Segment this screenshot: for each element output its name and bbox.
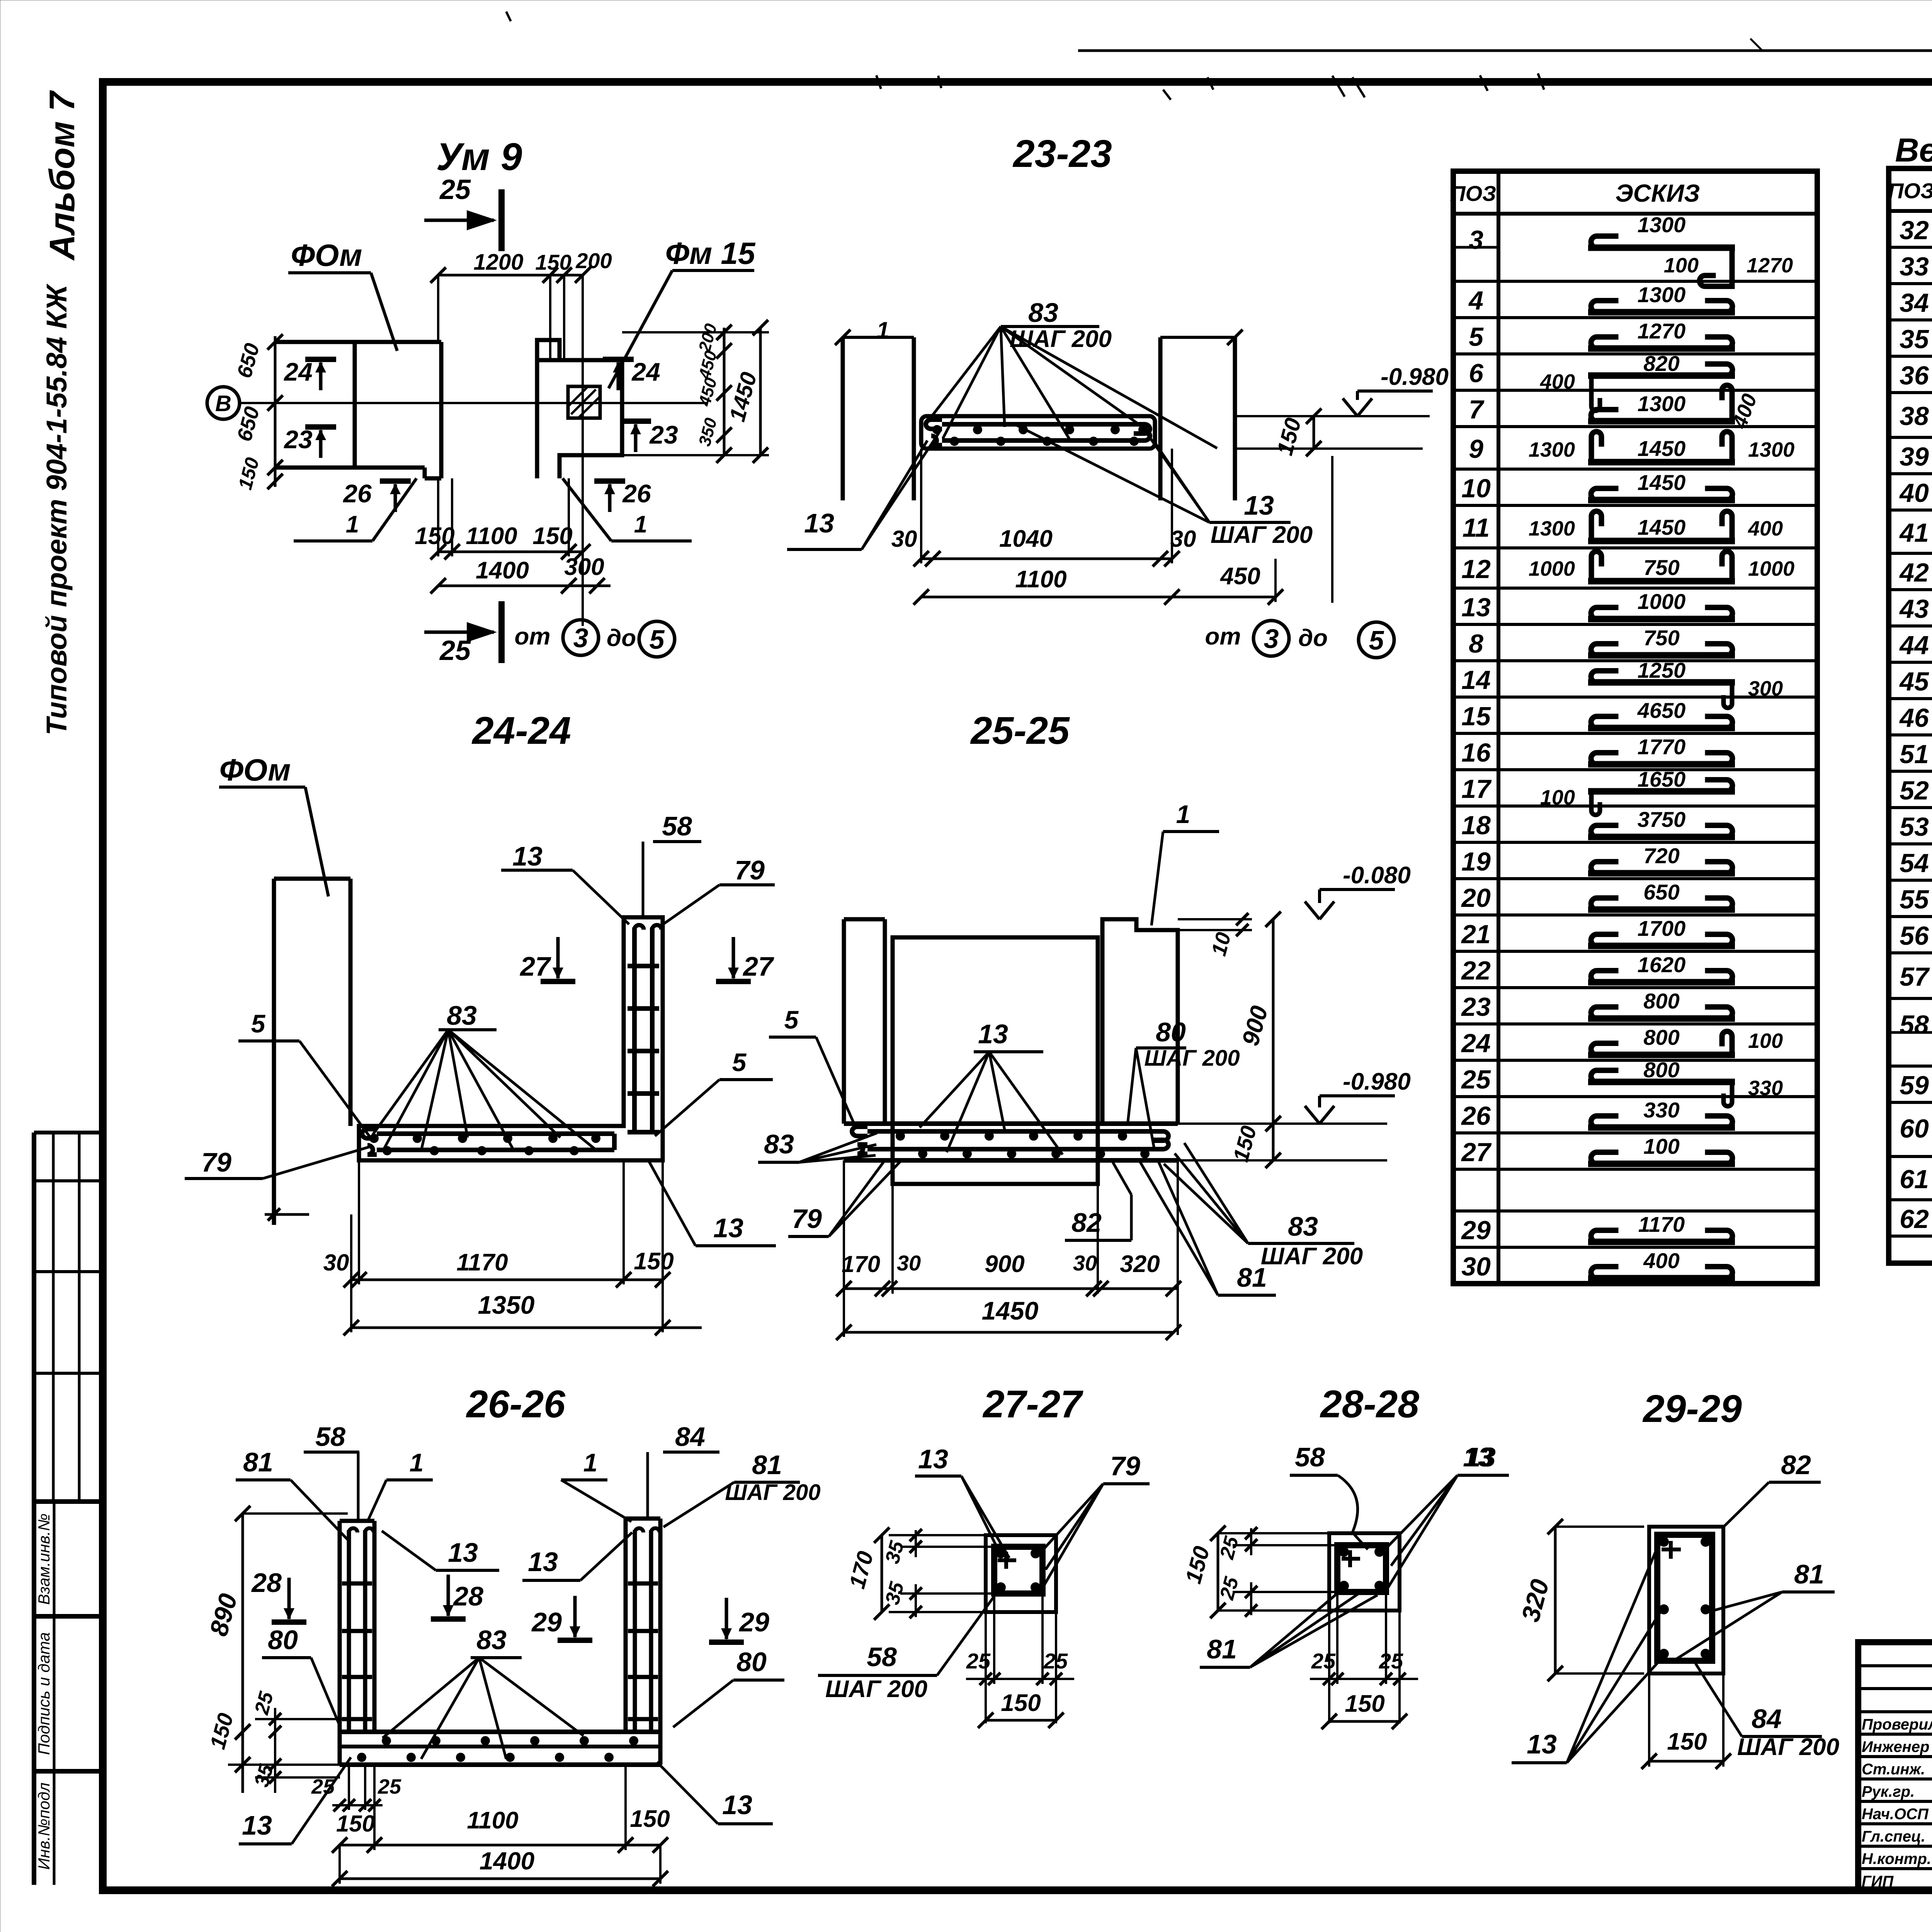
svg-text:Ведомость деталей: Ведомость деталей [1895, 132, 1932, 169]
svg-text:83: 83 [447, 1000, 477, 1031]
25 right wall [1102, 919, 1178, 1124]
svg-text:ШАГ 200: ШАГ 200 [1211, 522, 1313, 548]
svg-text:1300: 1300 [1529, 438, 1575, 461]
detail table 2 row 34 [1889, 284, 1932, 318]
svg-text:30: 30 [891, 526, 917, 552]
26 label 83 fan [383, 1625, 583, 1759]
svg-text:20: 20 [1461, 883, 1491, 913]
svg-text:26: 26 [342, 479, 372, 508]
svg-text:44: 44 [1899, 631, 1929, 660]
24 slab rebar [362, 1129, 614, 1155]
24 slab outline [359, 917, 663, 1160]
svg-text:29: 29 [531, 1607, 562, 1637]
svg-text:1270: 1270 [1638, 319, 1686, 343]
svg-text:9: 9 [1469, 434, 1483, 464]
26 label 13 bottom right [657, 1762, 773, 1824]
svg-text:800: 800 [1643, 989, 1679, 1013]
svg-text:1450: 1450 [1638, 515, 1686, 539]
28 label 13 [1387, 1442, 1509, 1589]
svg-text:ШАГ 200: ШАГ 200 [725, 1480, 820, 1505]
detail table 1 row 29 [1453, 1211, 1817, 1245]
26 spot 28 left [251, 1568, 306, 1622]
svg-text:36: 36 [1900, 361, 1929, 390]
svg-text:5: 5 [1369, 625, 1384, 655]
23 level mark -0.980 [1235, 364, 1449, 449]
24 spot 27 left [519, 937, 575, 981]
svg-text:81: 81 [1207, 1634, 1237, 1664]
svg-text:Инв.№подл: Инв.№подл [35, 1782, 53, 1870]
24 label FOm [219, 753, 328, 896]
svg-text:80: 80 [268, 1625, 298, 1655]
top dim line [430, 267, 590, 283]
26 label 58 [304, 1422, 359, 1521]
spot mark 24 right [603, 357, 660, 390]
26 bottom dims 150 1100 150 [332, 1765, 670, 1853]
title 23-23 [1012, 132, 1112, 175]
svg-text:1: 1 [583, 1448, 598, 1477]
svg-text:ПОЗ.: ПОЗ. [1888, 179, 1932, 203]
svg-text:32: 32 [1900, 216, 1929, 245]
26 slab [340, 1732, 660, 1765]
left margin label podpis [35, 1632, 53, 1755]
28 bottom dims 25 25 150 [1310, 1592, 1418, 1729]
svg-text:Инженер: Инженер [1862, 1738, 1929, 1755]
26 dim 150 left [205, 1711, 340, 1793]
25 level -0.980 [1305, 1068, 1411, 1124]
25 slab dots [896, 1131, 1150, 1158]
svg-text:18: 18 [1461, 811, 1491, 840]
svg-text:79: 79 [735, 855, 765, 885]
23 bottom dims 1100 450 [913, 559, 1283, 605]
26 left wall ladder [342, 1528, 374, 1732]
detail table 2 row 58 [1889, 990, 1932, 1065]
svg-text:13: 13 [1244, 490, 1274, 520]
label FOm with leader [288, 238, 397, 351]
28 label 81 [1200, 1593, 1378, 1667]
svg-text:1770: 1770 [1638, 735, 1686, 759]
svg-text:30: 30 [1461, 1252, 1491, 1281]
left margin stamp grid [34, 1133, 102, 1885]
svg-text:23: 23 [649, 420, 678, 449]
left dim texts [233, 341, 264, 492]
svg-text:13: 13 [448, 1537, 478, 1568]
svg-text:28-28: 28-28 [1320, 1383, 1419, 1426]
svg-text:3750: 3750 [1638, 807, 1686, 832]
svg-text:28: 28 [251, 1568, 282, 1598]
23 left wall [843, 337, 914, 500]
svg-text:1400: 1400 [476, 557, 529, 584]
23 left wall top label 1 [835, 317, 889, 345]
svg-text:Взам.инв.№: Взам.инв.№ [35, 1514, 53, 1605]
svg-text:26: 26 [622, 479, 651, 508]
svg-text:1270: 1270 [1747, 254, 1793, 277]
svg-text:400: 400 [1643, 1248, 1679, 1273]
svg-text:ШАГ 200: ШАГ 200 [1737, 1734, 1839, 1760]
svg-text:6: 6 [1469, 359, 1484, 388]
26 spot 29 right [709, 1598, 769, 1642]
plan centerline horizontal [240, 402, 707, 404]
title 27-27 [982, 1383, 1083, 1426]
svg-text:Рук.гр.: Рук.гр. [1862, 1783, 1915, 1800]
detail table 2 row 36 [1889, 356, 1932, 390]
svg-text:12: 12 [1461, 554, 1491, 584]
svg-text:13: 13 [1461, 593, 1491, 622]
svg-text:25: 25 [439, 174, 471, 205]
svg-text:10: 10 [1461, 474, 1491, 503]
svg-text:26: 26 [1461, 1101, 1491, 1131]
detail table 2 row 35 [1889, 320, 1932, 354]
26 spot 29 mid [531, 1596, 592, 1640]
28 label 58 [1290, 1442, 1368, 1549]
svg-text:56: 56 [1900, 921, 1929, 951]
24 old wall [274, 879, 350, 1225]
detail table 2 row 42 [1889, 553, 1932, 587]
svg-text:39: 39 [1900, 442, 1929, 471]
title 26-26 [466, 1383, 566, 1426]
23 label 83 shag 200 [927, 298, 1217, 448]
26 right wall ladder [628, 1528, 660, 1732]
title Um 9 [436, 135, 522, 179]
svg-text:1300: 1300 [1748, 438, 1794, 461]
24 label 79 right [663, 855, 775, 924]
detail table 1 row 21 [1453, 915, 1817, 949]
svg-text:300: 300 [564, 554, 604, 580]
svg-text:1200: 1200 [473, 250, 523, 275]
svg-text:13: 13 [1527, 1729, 1557, 1759]
svg-text:27: 27 [742, 951, 774, 981]
svg-text:40: 40 [1899, 478, 1929, 508]
svg-text:1400: 1400 [480, 1847, 534, 1875]
26 bottom dim 1400 [332, 1845, 668, 1886]
title 29-29 [1642, 1387, 1742, 1430]
svg-text:79: 79 [1110, 1451, 1140, 1481]
svg-text:58: 58 [662, 811, 692, 841]
svg-text:34: 34 [1900, 288, 1929, 318]
svg-text:5: 5 [732, 1048, 747, 1077]
bottom dim line 1 [430, 478, 590, 560]
24 label 83 fan [373, 1000, 597, 1151]
detail table 1 row 26 [1453, 1097, 1817, 1131]
svg-text:150: 150 [1001, 1690, 1041, 1716]
svg-text:-0.980: -0.980 [1381, 364, 1449, 390]
29 dim 150 [1641, 1673, 1731, 1769]
section arrow 25 bottom [424, 601, 502, 666]
svg-text:400: 400 [1748, 517, 1783, 540]
25 label 5 left [769, 1005, 855, 1125]
svg-text:24: 24 [1461, 1029, 1491, 1058]
svg-text:Альбом 7: Альбом 7 [43, 90, 82, 261]
28 dims 25 150 25 [1180, 1526, 1257, 1618]
svg-text:170: 170 [842, 1251, 880, 1277]
right dim 1450 [724, 320, 768, 463]
detail table 2 row 54 [1889, 844, 1932, 878]
26 dim 35 left [250, 1708, 340, 1793]
svg-text:21: 21 [1461, 920, 1491, 949]
svg-text:79: 79 [792, 1204, 822, 1234]
29 label 82 [1723, 1450, 1821, 1527]
26 label 80 right [673, 1647, 784, 1727]
svg-text:15: 15 [1461, 702, 1491, 731]
svg-text:-0.980: -0.980 [1343, 1068, 1411, 1095]
29 label 13 top left [1463, 1442, 1499, 1475]
svg-text:13: 13 [978, 1019, 1008, 1049]
svg-text:54: 54 [1900, 849, 1929, 878]
svg-text:25-25: 25-25 [970, 709, 1070, 752]
plan right foundation outline [537, 340, 622, 478]
svg-text:13: 13 [804, 508, 834, 538]
24 label 13 [501, 841, 629, 924]
svg-text:150: 150 [336, 1811, 375, 1837]
svg-text:1: 1 [1176, 800, 1190, 828]
svg-text:1300: 1300 [1529, 517, 1575, 540]
detail table 1 row 4 [1453, 281, 1817, 315]
24 label 5 left [238, 1009, 372, 1140]
svg-text:ПОЗ.: ПОЗ. [1450, 181, 1502, 206]
svg-text:52: 52 [1900, 776, 1929, 805]
svg-text:81: 81 [1794, 1559, 1824, 1589]
frame top scan ticks [506, 12, 1932, 100]
svg-text:900: 900 [985, 1251, 1024, 1277]
26 label 13 bottom left [239, 1757, 351, 1844]
23 label 13 shag 200 right [1012, 423, 1313, 548]
right dim line chain [716, 325, 732, 463]
26 label 1 left [367, 1448, 433, 1522]
25 label 13 fan [920, 1019, 1063, 1155]
svg-text:81: 81 [752, 1450, 782, 1480]
svg-text:1100: 1100 [466, 523, 517, 549]
svg-text:ФОм: ФОм [219, 753, 291, 787]
svg-text:750: 750 [1643, 626, 1679, 650]
svg-text:3: 3 [573, 623, 588, 653]
svg-text:150: 150 [1345, 1690, 1384, 1717]
svg-text:11: 11 [1463, 513, 1490, 543]
svg-text:24-24: 24-24 [471, 709, 571, 752]
svg-text:Типовой проект 904-1-55.84 К: Типовой проект 904-1-55.84 КЖ [41, 284, 73, 736]
title 25-25 [970, 709, 1070, 752]
svg-text:13: 13 [512, 841, 543, 871]
detail table 1 row 18 [1453, 806, 1817, 840]
25 left wall [844, 919, 885, 1124]
svg-text:1000: 1000 [1529, 557, 1575, 580]
26 label 81 left [236, 1447, 350, 1542]
svg-text:Фм 15: Фм 15 [665, 236, 756, 270]
detail table 2 row 53 [1889, 805, 1932, 855]
23 label 13 left [787, 433, 939, 549]
detail table 1 row 3 [1453, 213, 1793, 286]
svg-text:1350: 1350 [478, 1291, 535, 1319]
svg-text:820: 820 [1643, 351, 1679, 376]
right dim extensions [622, 332, 769, 455]
svg-text:26-26: 26-26 [466, 1383, 566, 1426]
spot mark 26 right [594, 479, 651, 512]
svg-text:53: 53 [1900, 812, 1929, 842]
svg-text:1000: 1000 [1748, 557, 1794, 580]
24 label 13 right [648, 1160, 776, 1246]
29 label 81 [1675, 1559, 1835, 1660]
23 right wall [1160, 330, 1243, 500]
axis circle V [207, 387, 240, 419]
svg-text:100: 100 [1664, 254, 1699, 277]
svg-text:1100: 1100 [467, 1807, 518, 1834]
detail table 2 row 62 [1889, 1200, 1932, 1234]
25 level -0.080 [1305, 862, 1411, 919]
svg-text:30: 30 [1170, 526, 1196, 552]
detail table 1 row 7 [1453, 385, 1817, 432]
svg-text:100: 100 [1643, 1134, 1679, 1158]
spot mark 23 right [620, 420, 678, 452]
24 wall ladder rebar [628, 925, 662, 1132]
svg-text:62: 62 [1900, 1204, 1929, 1234]
svg-text:Н.контр.: Н.контр. [1862, 1850, 1931, 1867]
25 dim 900 [1237, 912, 1281, 1131]
svg-text:83: 83 [1028, 298, 1058, 328]
svg-text:5: 5 [650, 624, 665, 655]
detail table 1 row blank [1453, 1168, 1817, 1171]
left margin label vzam inv [35, 1514, 53, 1605]
29 stirrup [1657, 1535, 1712, 1661]
svg-text:13: 13 [918, 1444, 948, 1474]
bottom dim line 2 [430, 578, 611, 594]
svg-text:1250: 1250 [1638, 658, 1686, 682]
detail table 1 row 22 [1453, 951, 1817, 985]
svg-text:25: 25 [378, 1775, 401, 1798]
29 label 84 shag 200 [1696, 1663, 1839, 1760]
svg-text:ШАГ 200: ШАГ 200 [1261, 1243, 1363, 1270]
26 dims 25 25 bottom [311, 1765, 401, 1811]
svg-text:13: 13 [713, 1213, 743, 1243]
detail table 1 row 24 [1453, 1024, 1817, 1058]
25 label 83 left [758, 1129, 877, 1162]
svg-text:45: 45 [1899, 667, 1929, 696]
svg-text:150: 150 [630, 1806, 670, 1832]
detail table 2 row 57 [1889, 953, 1932, 992]
svg-text:1650: 1650 [1638, 767, 1686, 791]
27 bottom dims 25 25 150 [966, 1594, 1074, 1728]
svg-text:от: от [1205, 623, 1241, 650]
svg-text:1170: 1170 [1638, 1212, 1685, 1236]
detail table 2 row 32 [1900, 212, 1932, 245]
25 slab rebar [852, 1127, 1168, 1154]
svg-text:4650: 4650 [1637, 698, 1686, 723]
sheet top thin line [1078, 49, 1932, 52]
24 slab dots [369, 1134, 600, 1155]
detail table 1 row 6 [1453, 351, 1817, 411]
25 inner block [893, 937, 1098, 1184]
29 label 13 fan [1512, 1544, 1662, 1763]
svg-text:38: 38 [1900, 401, 1929, 431]
svg-text:1700: 1700 [1638, 916, 1686, 940]
detail table 2 row 45 [1889, 660, 1932, 706]
26 label 13 pair [382, 1531, 632, 1580]
detail table 1 row 9 [1453, 427, 1817, 464]
svg-text:150: 150 [415, 523, 454, 549]
left margin text project designation [41, 90, 82, 735]
svg-text:от: от [515, 623, 551, 650]
svg-text:60: 60 [1900, 1114, 1929, 1143]
svg-text:Гл.спец.: Гл.спец. [1862, 1828, 1925, 1845]
26 spot 28 mid [431, 1575, 483, 1619]
23 slab rebar bottom [931, 431, 1150, 445]
svg-text:1300: 1300 [1638, 213, 1686, 237]
left margin label inv podl [35, 1782, 53, 1870]
title block signatures [1862, 1714, 1932, 1890]
svg-text:200: 200 [575, 248, 612, 273]
27 stirrup [994, 1547, 1043, 1594]
svg-text:до: до [607, 625, 636, 651]
svg-text:1: 1 [876, 317, 889, 343]
24 left wall bottom tick [265, 1208, 309, 1221]
label 1 right leader [563, 478, 692, 541]
svg-text:Нач.ОСП: Нач.ОСП [1862, 1806, 1929, 1823]
26 left wall [340, 1521, 374, 1732]
svg-text:ЭСКИЗ: ЭСКИЗ [1616, 179, 1700, 207]
detail table 1 row 13 [1453, 588, 1817, 622]
svg-text:22: 22 [1461, 956, 1491, 985]
detail table 1 row 10 [1453, 469, 1817, 503]
svg-text:1000: 1000 [1638, 589, 1686, 614]
svg-text:23: 23 [1461, 992, 1491, 1022]
svg-text:ФОм: ФОм [291, 238, 362, 272]
svg-text:58: 58 [315, 1422, 345, 1452]
svg-text:100: 100 [1748, 1029, 1783, 1053]
left dim line 650 650 150 [267, 334, 283, 489]
svg-text:29-29: 29-29 [1642, 1387, 1742, 1430]
title 28-28 [1320, 1383, 1419, 1426]
svg-text:Проверил: Проверил [1862, 1716, 1932, 1733]
28 outer square [1329, 1533, 1400, 1611]
29 outer rect [1649, 1527, 1723, 1673]
svg-text:79: 79 [201, 1147, 231, 1177]
svg-text:25: 25 [966, 1649, 991, 1673]
svg-text:1: 1 [410, 1448, 424, 1477]
svg-text:83: 83 [476, 1625, 507, 1655]
27 label 58 shag 200 [818, 1592, 997, 1702]
bottom dim texts 1400 300 [476, 554, 604, 584]
svg-text:25: 25 [1461, 1065, 1491, 1094]
23 text ot 3 do 5 [1205, 456, 1395, 658]
26 label 84 [648, 1422, 719, 1519]
detail table 1 row 8 [1453, 624, 1817, 658]
detail table 1 row 5 [1453, 318, 1817, 352]
svg-text:24: 24 [631, 357, 660, 386]
plan left foundation outline [274, 342, 441, 478]
detail table 1 row 17 [1453, 767, 1817, 815]
svg-text:4: 4 [1468, 286, 1483, 315]
svg-text:16: 16 [1461, 738, 1491, 767]
25 label 81 [1140, 1162, 1276, 1295]
detail table 2 row 39 [1889, 437, 1932, 471]
25 bottom dims 170 30 900 30 320 [836, 1160, 1181, 1335]
detail table 1 row 23 [1453, 988, 1817, 1022]
23 slab rebar top [926, 420, 1150, 434]
24 label 79 left [185, 1146, 372, 1179]
24 bottom dims 30 1170 150 [323, 1160, 674, 1332]
26 label 1 right [561, 1448, 631, 1522]
svg-text:5: 5 [251, 1009, 266, 1038]
svg-text:30: 30 [897, 1251, 921, 1275]
svg-text:27: 27 [519, 951, 551, 981]
spot mark 26 left [342, 479, 411, 512]
detail table 2 row 44 [1889, 623, 1932, 673]
svg-text:800: 800 [1643, 1025, 1679, 1049]
svg-text:5: 5 [784, 1005, 799, 1034]
svg-text:83: 83 [1288, 1211, 1318, 1242]
svg-text:330: 330 [1643, 1098, 1679, 1122]
detail table 1 row 14 [1453, 658, 1817, 708]
top dim extension lines [438, 275, 583, 561]
svg-text:30: 30 [323, 1250, 349, 1276]
svg-text:1170: 1170 [456, 1249, 508, 1276]
